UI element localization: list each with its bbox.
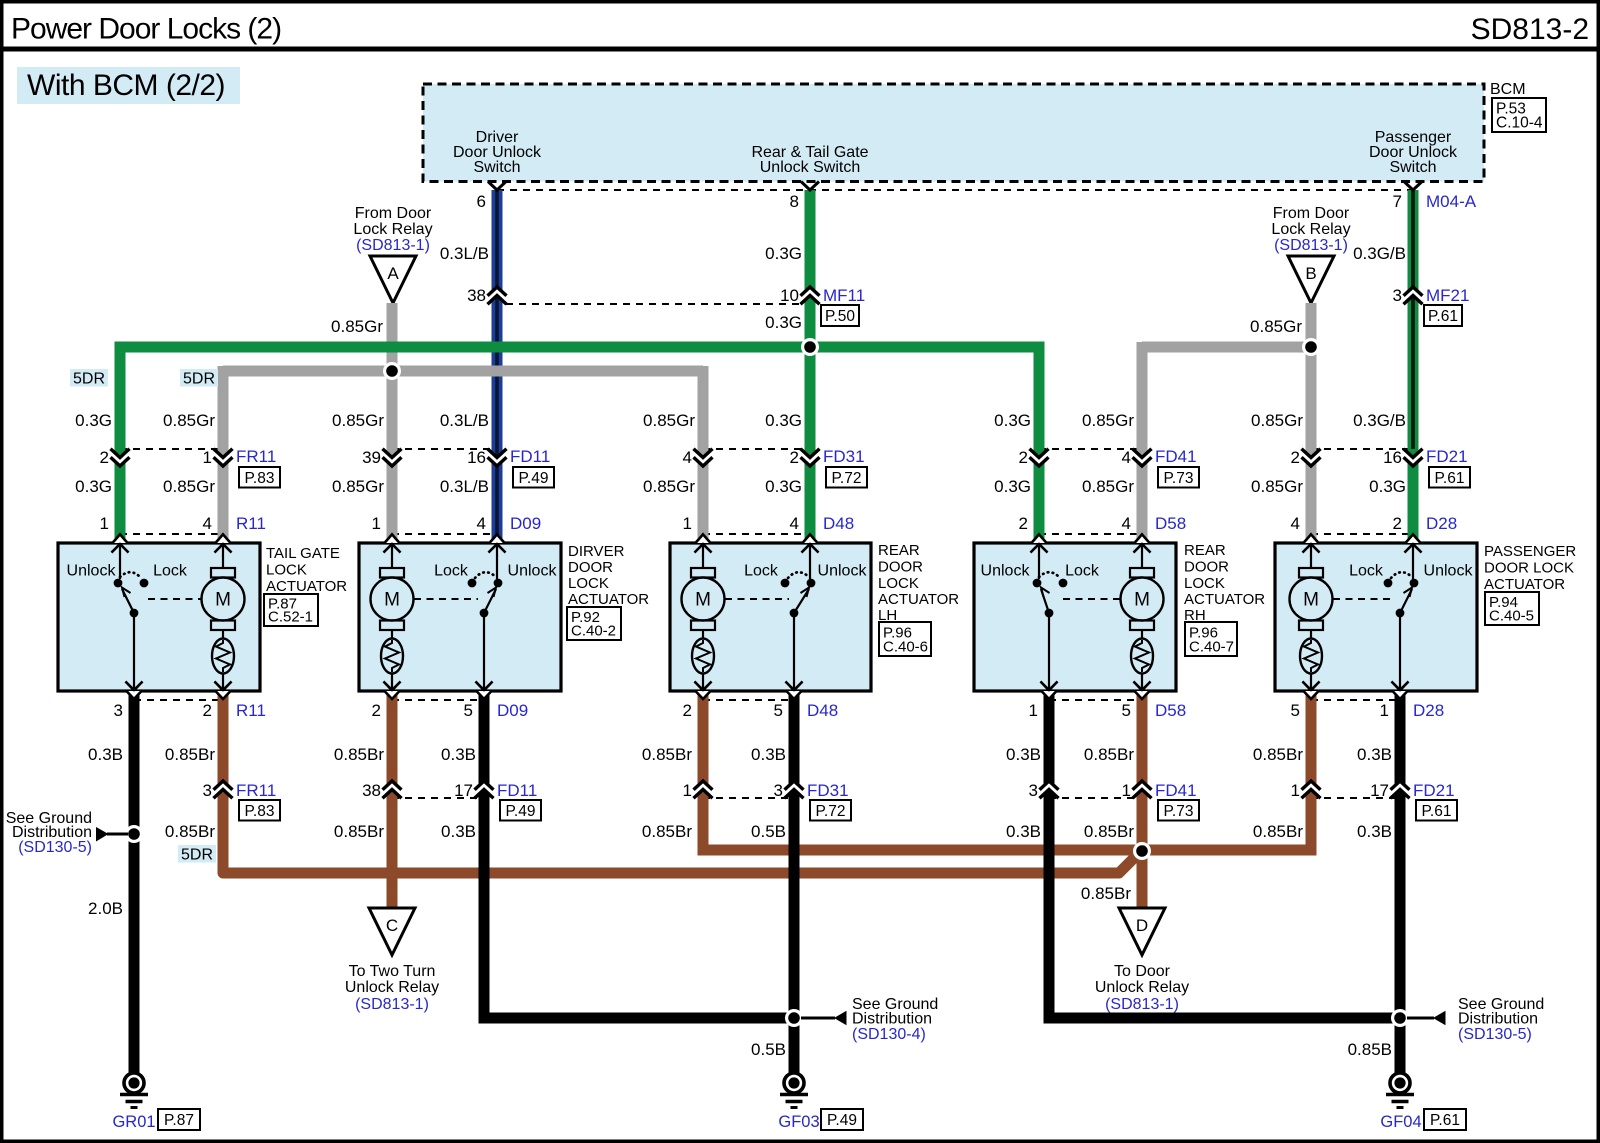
- connector FD31 upper labels: [683, 447, 865, 467]
- wire label 0.85Gr B: [1250, 317, 1302, 336]
- wire 0.3B tail gate ground drop: [129, 691, 140, 1073]
- svg-text:R11: R11: [236, 701, 266, 720]
- BCM text Passenger Door Unlock Switch: [1369, 129, 1458, 176]
- svg-text:2: 2: [203, 701, 212, 720]
- svg-text:SD813-2: SD813-2: [1471, 13, 1589, 46]
- wire 0.85Gr from triangle A: [387, 303, 398, 543]
- svg-text:D: D: [1136, 916, 1148, 935]
- svg-text:P.49: P.49: [827, 1112, 857, 1129]
- rear LH switch-motor link: [725, 598, 789, 600]
- svg-text:5DR: 5DR: [73, 371, 105, 388]
- svg-text:Unlock Relay: Unlock Relay: [345, 979, 439, 996]
- svg-text:D28: D28: [1426, 514, 1457, 533]
- motor M tail gate: [202, 544, 245, 691]
- svg-text:0.3L/B: 0.3L/B: [440, 477, 489, 496]
- svg-text:TAIL GATE: TAIL GATE: [266, 545, 340, 562]
- wire 0.85Br driver to triangle C: [387, 691, 398, 909]
- connector FD41 pin 4 chevron: [1133, 449, 1152, 466]
- connector FD11 pin 39 chevron: [383, 449, 402, 466]
- svg-text:5: 5: [464, 701, 473, 720]
- svg-text:2: 2: [1019, 448, 1028, 467]
- svg-text:DOOR: DOOR: [568, 559, 613, 576]
- svg-text:0.85Gr: 0.85Gr: [1082, 477, 1134, 496]
- svg-text:6: 6: [477, 192, 486, 211]
- connector R11 bottom pins: [114, 701, 266, 720]
- svg-text:DOOR: DOOR: [878, 559, 923, 576]
- svg-text:0.85Br: 0.85Br: [642, 822, 692, 841]
- svg-text:B: B: [1305, 264, 1316, 283]
- svg-text:5: 5: [1291, 701, 1300, 720]
- svg-text:0.85Gr: 0.85Gr: [163, 411, 215, 430]
- svg-text:5DR: 5DR: [181, 847, 213, 864]
- connector FD41 upper page box P.73: [1158, 467, 1199, 488]
- svg-text:0.85Gr: 0.85Gr: [643, 477, 695, 496]
- rear RH page ref box P.96 C.40-7: [1185, 622, 1237, 656]
- svg-text:To Door: To Door: [1114, 963, 1171, 980]
- svg-text:0.85Gr: 0.85Gr: [1251, 411, 1303, 430]
- svg-text:0.85Br: 0.85Br: [1084, 745, 1134, 764]
- actuator bottom connector rear RH pin 1: [1041, 682, 1058, 700]
- driver actuator name: [568, 543, 649, 608]
- wire 0.85Gr drop to D58: [1137, 342, 1148, 543]
- svg-text:2: 2: [100, 448, 109, 467]
- svg-text:FD11: FD11: [510, 447, 550, 466]
- connector D48 top dashed row: [703, 533, 810, 535]
- connector D58 bottom pins: [1029, 701, 1187, 720]
- passenger door lock actuator box: [1275, 543, 1477, 691]
- svg-text:FD31: FD31: [807, 781, 849, 800]
- svg-text:P.72: P.72: [816, 803, 846, 820]
- wire 0.5B rear LH ground drop: [789, 691, 800, 1073]
- svg-text:P.87: P.87: [164, 1112, 194, 1129]
- BCM pin numbers: [477, 192, 1402, 211]
- connector D48 bottom pins: [683, 701, 839, 720]
- connector MF21 pin 3 chevron: [1404, 287, 1423, 304]
- svg-text:3: 3: [774, 781, 783, 800]
- svg-text:Unlock: Unlock: [508, 563, 558, 580]
- svg-text:D09: D09: [497, 701, 528, 720]
- connector FD11 upper dashed row: [392, 448, 497, 450]
- svg-text:A: A: [387, 264, 399, 283]
- svg-text:ACTUATOR: ACTUATOR: [266, 578, 347, 595]
- svg-text:1: 1: [1122, 781, 1131, 800]
- connector D09 bottom dashed row: [392, 699, 484, 701]
- connector FD31 lower labels: [683, 781, 849, 800]
- passenger page ref box P.94 C.40-5: [1485, 592, 1539, 625]
- svg-text:C.10-4: C.10-4: [1496, 115, 1543, 132]
- connector FD31 upper page box P.72: [826, 467, 867, 488]
- connector D48 bottom dashed row: [703, 699, 794, 701]
- BCM text Driver Door Unlock Switch: [453, 129, 542, 176]
- connector FD41 lower page box P.73: [1158, 800, 1199, 821]
- svg-text:17: 17: [1370, 781, 1389, 800]
- motor M rear LH: [682, 544, 725, 691]
- connector FD41 lower dashed row: [1049, 797, 1142, 799]
- ground distribution junction right: [1391, 1009, 1409, 1027]
- rear door lock actuator LH box: [670, 543, 871, 691]
- svg-text:1: 1: [100, 514, 109, 533]
- svg-text:Lock: Lock: [434, 563, 469, 580]
- svg-text:P.83: P.83: [245, 470, 275, 487]
- wire label 5DR mid: [180, 369, 218, 388]
- svg-text:FD41: FD41: [1155, 447, 1197, 466]
- label With BCM (2/2): [17, 67, 240, 104]
- svg-text:0.3B: 0.3B: [441, 822, 476, 841]
- rear LH switch Unlock label: [818, 563, 868, 580]
- actuator top connector rear RH pin 4: [1134, 534, 1151, 552]
- junction dot brown bus: [1133, 842, 1151, 860]
- svg-text:1: 1: [1380, 701, 1389, 720]
- relay reference text B: [1271, 205, 1350, 254]
- svg-text:D09: D09: [510, 514, 541, 533]
- wire 0.85Br tail gate to bus: [223, 691, 1140, 873]
- actuator bottom connector passenger pin 5: [1303, 682, 1320, 700]
- svg-text:1: 1: [372, 514, 381, 533]
- svg-text:ACTUATOR: ACTUATOR: [1484, 576, 1565, 593]
- svg-text:Lock: Lock: [744, 563, 779, 580]
- svg-text:0.85Br: 0.85Br: [1253, 745, 1303, 764]
- ground GR01 page ref box P.87: [158, 1109, 200, 1130]
- connector FR11 lower page box P.83: [239, 800, 280, 821]
- svg-text:(SD813-1): (SD813-1): [356, 237, 430, 254]
- connector FR11 lower labels: [203, 781, 277, 800]
- connector FD21 pin 2 chevron: [1302, 449, 1321, 466]
- ground GF04: [1386, 1073, 1414, 1108]
- svg-text:0.3B: 0.3B: [1357, 822, 1392, 841]
- svg-text:0.85Br: 0.85Br: [1253, 822, 1303, 841]
- rear RH switch-motor link: [1063, 598, 1120, 600]
- svg-text:LOCK: LOCK: [568, 575, 609, 592]
- actuator top connector rear LH pin 1: [695, 534, 712, 552]
- ground distribution arrow left: [96, 827, 128, 842]
- tail gate switch Unlock label: [67, 563, 117, 580]
- svg-text:7: 7: [1393, 192, 1402, 211]
- wire 0.85Gr bus right: [1142, 342, 1311, 353]
- connector FD11 lower labels: [362, 781, 537, 800]
- wire label 0.3L/B upper: [440, 244, 489, 263]
- connector D28 bottom dashed row: [1311, 699, 1400, 701]
- motor M passenger: [1290, 544, 1333, 691]
- connector FD31 lower page box P.72: [810, 800, 851, 821]
- svg-text:5: 5: [774, 701, 783, 720]
- connector R11 top pins: [100, 514, 266, 533]
- svg-text:2: 2: [1393, 514, 1402, 533]
- tail gate lock actuator box: [58, 543, 260, 691]
- rear door lock actuator RH box: [974, 543, 1176, 691]
- connector FD41 pin 3 chevron: [1040, 781, 1059, 798]
- svg-text:REAR: REAR: [878, 542, 920, 559]
- wire 0.85Gr drop to D48: [698, 366, 709, 543]
- connector FD11 pin 38 chevron: [383, 781, 402, 798]
- svg-text:2: 2: [372, 701, 381, 720]
- ground GF04 label: [1380, 1113, 1421, 1131]
- svg-text:P.72: P.72: [832, 470, 862, 487]
- connector R11 top dashed row: [120, 533, 223, 535]
- svg-text:Unlock: Unlock: [67, 563, 117, 580]
- svg-text:Unlock: Unlock: [1424, 563, 1474, 580]
- rear LH actuator name: [878, 542, 959, 624]
- svg-text:1: 1: [203, 448, 212, 467]
- connector FR11 upper dashed row: [120, 448, 223, 450]
- tail gate switch-motor link: [148, 598, 201, 600]
- svg-text:C.52-1: C.52-1: [268, 609, 313, 626]
- svg-text:REAR: REAR: [1184, 542, 1226, 559]
- rear RH switch Unlock label: [981, 563, 1031, 580]
- svg-text:5DR: 5DR: [183, 371, 215, 388]
- connector D58 top pins: [1019, 514, 1187, 533]
- svg-text:FD21: FD21: [1426, 447, 1468, 466]
- connector D58 top dashed row: [1039, 533, 1142, 535]
- svg-text:P.73: P.73: [1164, 803, 1194, 820]
- ground distribution text center: [852, 996, 938, 1043]
- connector FD21 upper dashed row: [1311, 448, 1413, 450]
- svg-text:C: C: [386, 916, 398, 935]
- svg-text:0.3G: 0.3G: [75, 477, 112, 496]
- connector MF21 page box P.61: [1424, 305, 1462, 326]
- svg-text:4: 4: [683, 448, 692, 467]
- svg-text:DOOR LOCK: DOOR LOCK: [1484, 560, 1574, 577]
- svg-text:1: 1: [683, 514, 692, 533]
- BCM pin 7 connector: [1404, 182, 1422, 191]
- wire 0.3L/B driver unlock: [492, 190, 503, 543]
- connector FD41 pin 2 chevron: [1030, 449, 1049, 466]
- svg-text:38: 38: [362, 781, 381, 800]
- connector D48 top pins: [683, 514, 855, 533]
- svg-text:(SD813-1): (SD813-1): [355, 996, 429, 1013]
- connector FD11 lower page box P.49: [500, 800, 541, 821]
- driver page ref box P.92 C.40-2: [567, 607, 621, 640]
- wire label 0.85Gr A: [331, 317, 383, 336]
- svg-text:3: 3: [203, 781, 212, 800]
- connector FD31 pin 1 chevron: [694, 781, 713, 798]
- svg-text:ACTUATOR: ACTUATOR: [878, 591, 959, 608]
- svg-text:BCM: BCM: [1490, 81, 1526, 98]
- svg-text:GR01: GR01: [112, 1113, 155, 1131]
- node M04-A: [1426, 192, 1477, 211]
- wire label 0.5B ground: [751, 1040, 786, 1059]
- svg-text:0.3G: 0.3G: [75, 411, 112, 430]
- wire labels above upper row: [75, 411, 1406, 430]
- svg-text:4: 4: [203, 514, 212, 533]
- connector FD41 lower labels: [1029, 781, 1197, 800]
- svg-text:LOCK: LOCK: [266, 562, 307, 579]
- ground distribution text right: [1458, 996, 1544, 1043]
- svg-text:(SD813-1): (SD813-1): [1274, 237, 1348, 254]
- rear LH switch: [781, 544, 819, 691]
- wire 0.85Gr bus left: [223, 366, 703, 377]
- driver switch-motor link: [414, 598, 478, 600]
- actuator bottom connector rear RH pin 5: [1134, 682, 1151, 700]
- wire label 0.3G/B upper: [1353, 244, 1406, 263]
- svg-text:D48: D48: [823, 514, 854, 533]
- svg-text:0.85Br: 0.85Br: [334, 745, 384, 764]
- svg-text:FD21: FD21: [1413, 781, 1455, 800]
- connector MF11 pin 38 chevron: [488, 287, 507, 304]
- rear RH actuator name: [1184, 542, 1265, 624]
- svg-text:D28: D28: [1413, 701, 1444, 720]
- wire 0.85Gr from triangle B: [1306, 303, 1317, 543]
- svg-text:0.3B: 0.3B: [1006, 822, 1041, 841]
- relay reference text D: [1095, 963, 1189, 1013]
- svg-text:From Door: From Door: [1273, 205, 1350, 222]
- svg-text:3: 3: [1029, 781, 1038, 800]
- svg-text:4: 4: [1122, 514, 1131, 533]
- svg-text:0.3G/B: 0.3G/B: [1353, 411, 1406, 430]
- passenger switch Lock label: [1349, 563, 1384, 580]
- connector D28 top dashed row: [1311, 533, 1413, 535]
- svg-text:0.85Gr: 0.85Gr: [643, 411, 695, 430]
- svg-text:0.3G: 0.3G: [1369, 477, 1406, 496]
- junction dot gray A bus: [383, 362, 401, 380]
- actuator bottom connector tail pin 3: [126, 682, 143, 700]
- triangle connector A: [370, 256, 416, 303]
- wire label 0.3G below MF11: [765, 313, 802, 332]
- svg-text:Unlock: Unlock: [981, 563, 1031, 580]
- svg-text:39: 39: [362, 448, 381, 467]
- svg-text:Lock: Lock: [153, 563, 188, 580]
- svg-text:ACTUATOR: ACTUATOR: [568, 591, 649, 608]
- svg-text:0.85Br: 0.85Br: [1081, 884, 1131, 903]
- connector D09 top pins: [372, 514, 542, 533]
- svg-text:16: 16: [467, 448, 486, 467]
- svg-text:C.40-6: C.40-6: [883, 639, 928, 656]
- svg-text:DOOR: DOOR: [1184, 559, 1229, 576]
- svg-text:0.3B: 0.3B: [751, 745, 786, 764]
- connector FD41 upper dashed row: [1039, 448, 1142, 450]
- svg-text:Unlock Relay: Unlock Relay: [1095, 979, 1189, 996]
- svg-text:PASSENGER: PASSENGER: [1484, 543, 1576, 560]
- connector D28 bottom pins: [1291, 701, 1445, 720]
- ground distribution arrow center: [801, 1011, 847, 1026]
- motor M rear RH: [1121, 544, 1164, 691]
- svg-text:To Two Turn: To Two Turn: [349, 963, 436, 980]
- actuator top connector passenger pin 2: [1405, 534, 1422, 552]
- wire labels below actuators: [88, 745, 1392, 764]
- connector FD21 pin 16 chevron: [1404, 449, 1423, 466]
- passenger actuator name: [1484, 543, 1576, 593]
- svg-text:M: M: [215, 590, 231, 611]
- ground GF03 page ref box P.49: [821, 1109, 863, 1130]
- svg-text:3: 3: [1393, 286, 1402, 305]
- rear LH page ref box P.96 C.40-6: [879, 622, 931, 656]
- actuator bottom connector tail pin 2: [215, 682, 232, 700]
- connector FD21 lower dashed row: [1311, 797, 1400, 799]
- ground distribution junction center: [785, 1009, 803, 1027]
- ground GR01: [120, 1073, 148, 1108]
- actuator bottom connector driver pin 2: [384, 682, 401, 700]
- svg-text:Lock: Lock: [1349, 563, 1384, 580]
- svg-text:D58: D58: [1155, 514, 1186, 533]
- svg-text:0.85Gr: 0.85Gr: [332, 411, 384, 430]
- connector FD11 lower dashed row: [392, 797, 484, 799]
- triangle connector C: [369, 908, 415, 955]
- tail gate page ref box P.87 C.52-1: [264, 594, 318, 626]
- connector FD21 pin 1 chevron: [1302, 781, 1321, 798]
- svg-text:0.85Br: 0.85Br: [334, 822, 384, 841]
- actuator top connector driver pin 1: [384, 534, 401, 552]
- svg-text:0.85Gr: 0.85Gr: [332, 477, 384, 496]
- svg-text:0.85Gr: 0.85Gr: [1082, 411, 1134, 430]
- wire label 0.3G upper: [765, 244, 802, 263]
- connector FD21 lower labels: [1291, 781, 1455, 800]
- connector FD31 upper dashed row: [703, 448, 810, 450]
- svg-text:D48: D48: [807, 701, 838, 720]
- svg-text:Unlock: Unlock: [818, 563, 868, 580]
- motor M driver: [371, 544, 414, 691]
- svg-text:0.3L/B: 0.3L/B: [440, 244, 489, 263]
- svg-text:0.3G: 0.3G: [994, 477, 1031, 496]
- wire label 0.85Br above D: [1081, 884, 1131, 903]
- ground GF03: [780, 1073, 808, 1108]
- svg-text:P.73: P.73: [1164, 470, 1194, 487]
- wire label 0.85B ground: [1348, 1040, 1392, 1059]
- rear RH switch Lock label: [1065, 563, 1100, 580]
- actuator bottom connector passenger pin 1: [1392, 682, 1409, 700]
- svg-text:R11: R11: [236, 514, 266, 533]
- svg-text:0.3G: 0.3G: [765, 477, 802, 496]
- ground GF03 label: [778, 1113, 819, 1131]
- svg-text:D58: D58: [1155, 701, 1186, 720]
- svg-text:C.40-5: C.40-5: [1489, 608, 1534, 625]
- svg-text:10: 10: [780, 286, 799, 305]
- svg-text:0.3L/B: 0.3L/B: [440, 411, 489, 430]
- svg-text:P.61: P.61: [1430, 1112, 1460, 1129]
- svg-text:(SD130-5): (SD130-5): [1458, 1026, 1532, 1043]
- connector D09 bottom pins: [372, 701, 529, 720]
- svg-text:P.83: P.83: [245, 803, 275, 820]
- svg-text:P.49: P.49: [519, 470, 549, 487]
- connector FR11 pin 1 chevron: [214, 449, 233, 466]
- svg-text:P.61: P.61: [1435, 470, 1465, 487]
- actuator top connector tail pin 1: [112, 534, 129, 552]
- svg-text:Lock Relay: Lock Relay: [1271, 221, 1350, 238]
- svg-text:C.40-2: C.40-2: [571, 623, 616, 640]
- actuator bottom connector rear LH pin 2: [695, 682, 712, 700]
- triangle connector D: [1119, 908, 1165, 955]
- passenger switch: [1384, 544, 1422, 691]
- connector MF11 pin 10 chevron: [801, 287, 820, 304]
- svg-text:M: M: [384, 590, 400, 611]
- svg-text:Lock: Lock: [1065, 563, 1100, 580]
- BCM label: [1490, 81, 1526, 98]
- connector FD31 pin 3 chevron: [785, 781, 804, 798]
- svg-text:4: 4: [1122, 448, 1131, 467]
- svg-text:0.85Gr: 0.85Gr: [1250, 317, 1302, 336]
- svg-text:0.3B: 0.3B: [88, 745, 123, 764]
- ground GF04 page ref box P.61: [1424, 1109, 1466, 1130]
- actuator bottom connector driver pin 5: [476, 682, 493, 700]
- svg-text:4: 4: [1291, 514, 1300, 533]
- svg-text:FD41: FD41: [1155, 781, 1197, 800]
- svg-text:0.85Br: 0.85Br: [165, 822, 215, 841]
- svg-text:LOCK: LOCK: [1184, 575, 1225, 592]
- connector FD21 lower page box P.61: [1416, 800, 1457, 821]
- svg-text:From Door: From Door: [355, 205, 432, 222]
- svg-text:0.3G: 0.3G: [765, 313, 802, 332]
- wire label 5DR left: [70, 369, 108, 388]
- ground distribution text left: [6, 810, 92, 856]
- connector FD21 pin 17 chevron: [1391, 781, 1410, 798]
- connector FD21 upper page box P.61: [1429, 467, 1470, 488]
- svg-text:2: 2: [683, 701, 692, 720]
- svg-text:Lock Relay: Lock Relay: [353, 221, 432, 238]
- BCM pin dashed row: [497, 189, 1413, 191]
- wire 0.85Gr drop to R11: [218, 366, 229, 543]
- actuator top connector passenger pin 4: [1303, 534, 1320, 552]
- rear LH switch Lock label: [744, 563, 779, 580]
- passenger switch Unlock label: [1424, 563, 1474, 580]
- svg-text:1: 1: [683, 781, 692, 800]
